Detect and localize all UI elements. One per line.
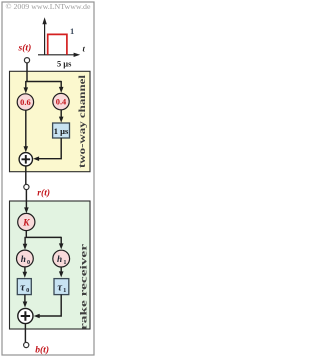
pulse s(t) red [48,34,67,54]
wire 0.6 to adder [25,110,27,147]
svg-text:τ: τ [20,282,25,293]
coefficient 0.6 [17,94,33,110]
delay block tau0 [17,279,31,295]
svg-text:0: 0 [27,259,30,266]
svg-text:τ: τ [57,282,62,293]
wire branch horizontal [26,81,61,83]
wire tau0 to adder [24,295,26,303]
coefficient 0.4 [53,93,69,109]
svg-text:rake receiver: rake receiver [79,244,89,330]
svg-text:0: 0 [26,287,29,294]
svg-text:5 µs: 5 µs [57,60,72,69]
wire adder to b(t) [24,324,26,343]
terminal b(t) [24,342,29,347]
gain K [18,213,35,230]
adder receiver [18,308,33,323]
wire down to 0.6 [25,81,27,89]
svg-text:h: h [21,254,26,264]
wire 0.4 to delay [60,110,62,118]
wire terminal to branch [26,63,28,82]
svg-text:K: K [22,218,30,229]
svg-text:b(t): b(t) [35,344,49,355]
axis arrow right [74,53,81,57]
wire down to h0 [24,237,26,245]
delay block 1 us [53,123,70,138]
svg-text:1: 1 [63,259,66,266]
delay block tau1 [54,279,69,295]
svg-text:s(t): s(t) [18,43,32,54]
wire K to branch [25,231,27,238]
adder channel [19,153,32,166]
svg-text:two-way channel: two-way channel [77,74,87,168]
svg-text:1: 1 [70,26,74,36]
wire down to 0.4 [60,81,62,88]
rake receiver box [10,201,91,329]
wire adder to r(t) [25,166,27,184]
two-way channel box [10,71,91,171]
terminal s(t) [24,58,29,63]
terminal r(t) [24,184,29,189]
svg-text:h: h [57,254,62,264]
branch horizontal receiver [26,236,62,238]
wire h1 to tau1 [60,267,62,272]
wire h0 to tau0 [24,267,26,273]
s(t) plot vertical axis [38,23,76,55]
svg-text:1 µs: 1 µs [54,126,69,136]
svg-text:r(t): r(t) [37,188,50,199]
wire down to h1 [60,237,62,245]
axis arrow up [42,17,46,24]
filter h1 [53,250,70,267]
svg-text:0.4: 0.4 [56,98,67,107]
svg-text:© 2009 www.LNTwww.de: © 2009 www.LNTwww.de [6,3,91,11]
wire delay to adder [38,138,62,159]
filter h0 [17,250,34,267]
svg-text:1: 1 [63,287,66,294]
wire r(t) to K [25,190,27,209]
frame border [2,2,94,355]
svg-text:0.6: 0.6 [20,98,30,107]
wire tau1 to adder [38,295,62,316]
